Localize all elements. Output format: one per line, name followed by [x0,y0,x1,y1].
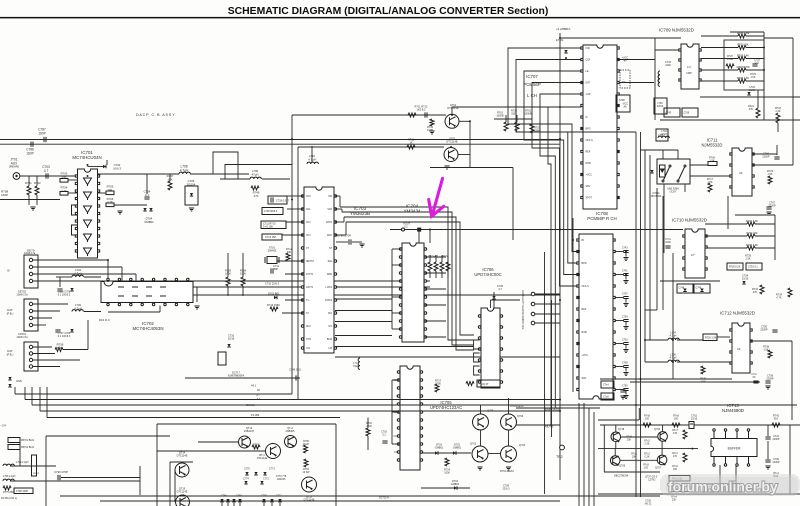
ground IC702 right [194,306,199,309]
wire TP3 right [535,313,560,315]
wire bus bl 2v [24,387,26,400]
wire ladder2 row 1 r [755,235,775,237]
wire IC705 left bus2 [391,380,393,444]
svg-text:TPS LRC: TPS LRC [522,300,525,310]
connector DE702 pin 3 [29,316,32,319]
diode bottom row b0 [262,499,265,502]
junction dot 22 [625,274,627,276]
svg-text:+VCC: +VCC [586,174,593,177]
svg-text:R7062.2K: R7062.2K [107,197,114,204]
transistor QT16 DTA114E [266,444,281,459]
junction dot 4 [559,229,561,231]
wire IC701 out 1 [98,192,106,194]
wire IC708 bottom exit [560,404,579,406]
relay switch 1 [662,165,671,182]
svg-text:TPD GND: TPD GND [522,318,525,329]
wire DE702 pin4 [33,324,46,326]
diode bottom row a3 [238,499,241,502]
inductor L708 4.7uH [179,172,190,174]
svg-text:TP2: TP2 [556,455,563,459]
wire ladder row RT01 2.3M left [701,35,738,37]
wire L701 right [84,276,101,278]
wire Q704 row [488,453,500,455]
wire ladder2 row 2 l [705,247,747,249]
svg-text:C774: C774 [243,478,249,481]
svg-text:R7042.2K: R7042.2K [61,186,68,193]
wire IC707 staircase 5 [540,94,581,408]
svg-text:C704∙: C704∙ [622,317,628,319]
svg-text:GND: GND [16,379,22,383]
svg-text:C742∙: C742∙ [622,248,628,250]
resistor R701 [27,186,31,195]
wire IC704 left pin 5 [392,312,401,314]
component C753 box [746,263,762,270]
wire IC708 right pin C702 [615,343,624,345]
wire IC703 out v4 [345,222,347,235]
wire ladder row RT01 2.3M right [746,35,764,37]
resistor R713 100B [430,119,434,126]
capacitor R712b [425,112,427,117]
wire IC703 left p1 [287,195,303,197]
wire Q701/Q702 join [469,121,471,167]
svg-text:OFF-S: OFF-S [582,285,590,288]
wire bottom long2 [100,500,560,502]
wire Q706-Q704 [508,430,510,446]
wire IC703 left xtal1 [277,260,303,262]
IC702 top pin 1 [107,278,109,281]
IC712 left pin 1 [730,329,732,331]
IC702 inner marks [118,287,166,296]
wire IC704 left bus [391,249,393,329]
svg-text:Q704: Q704 [519,444,526,447]
IC709 right pin 1 [699,49,701,51]
svg-text:C770∙7751000/35: C770∙7751000/35 [276,475,287,481]
wire L708 left [98,173,179,175]
resistor R724b [768,176,772,184]
wire ladder2 row 2 r [755,247,775,249]
inverter gate 2 inside IC701 [84,192,92,200]
resistor R702 3.3K [747,222,755,226]
svg-text:RC2: RC2 [306,326,311,328]
ferrite bead FB701 [8,438,20,443]
connector DE702 pin 2 [29,309,32,312]
svg-text:(REAR): (REAR) [9,165,19,169]
resistor R764 100K [241,277,245,286]
wire right area link2 [660,119,800,121]
IC713 bottom pin 2 [724,457,726,467]
wire QT14-QT15 link [174,470,176,502]
wire right area link1 [700,96,800,98]
inverter gate 1 inside IC701 [84,178,92,186]
junction dot 13 [672,339,674,341]
wire bus bl 5v [46,387,48,418]
diode bottom row a1 [226,499,229,502]
wire Q706 up [508,398,510,414]
connector DE701 box [24,255,38,288]
wire R764 down [242,286,244,296]
capacitor C714 56P [271,268,273,273]
wire L706 right [677,361,732,363]
wire C769 link [767,441,769,459]
svg-text:DC701(AUX L): DC701(AUX L) [1,497,17,500]
inductor L703 47uH [658,136,669,138]
svg-text:Y02: Y02 [306,348,311,350]
IC702 top pin 8 [187,278,189,281]
svg-text:Q704: Q704 [654,428,661,431]
diode input protect b [8,384,11,387]
wire bus bottom x584 [583,403,585,506]
wire bus bl 3v [31,387,33,405]
dot near IC707 top [565,57,567,59]
capacitor near IC710 [665,246,670,248]
svg-text:Q703: Q703 [470,443,477,446]
wire mute box left [156,424,158,506]
resistor R742 51K [772,423,780,427]
IC708 filled pin left y297.5 [577,296,580,299]
svg-text:R730 8.2K: R730 8.2K [729,266,741,269]
wire nested to IC706 a [448,253,474,340]
resistor cluster RC702 near IC706 [440,262,444,271]
wire R758 right [63,349,88,351]
capacitor C790 270P [349,239,351,244]
svg-text:C787160P: C787160P [38,128,46,136]
svg-text:C753 0.1: C753 0.1 [748,266,758,269]
crystal X701 plates [265,257,279,263]
wire IC708 right pin C708 [615,366,624,368]
resistor cluster RC700 near IC706 [428,262,432,271]
wire big box bottom top [46,435,170,437]
resistor R711 1K [408,113,416,117]
ground C708 [623,373,628,376]
wire mute box top [157,423,336,425]
junction dot 20 [450,146,452,148]
svg-text:C790 270P: C790 270P [337,234,351,238]
wire IC708 right pin C707 [615,297,624,299]
IC705 UPD74HC123AC body [397,366,422,470]
IC707 filled pin right y105.5 [617,104,619,106]
connector CD701 pin 3 [29,358,32,361]
svg-text:DAT(P.B.): DAT(P.B.) [7,308,14,315]
wire L702 right [84,311,101,313]
vertical bead FB703 [32,455,37,476]
svg-text:Q706: Q706 [517,415,524,418]
wire top bus 2 [0,143,560,145]
IC709 right pin 2 [699,59,701,61]
ground C741 [623,281,628,284]
wire IC703 left d [285,299,303,301]
wire relay pin b [677,150,679,159]
wire Q705 up [480,405,482,414]
ground C705 [623,396,628,399]
IC703 YM3623B body [301,187,336,353]
svg-text:C75410/16: C75410/16 [742,275,749,281]
wire IC712 out v [791,341,793,420]
IC708 filled pin left y343.5 [577,342,580,345]
wire DE701 pin4 [33,280,150,282]
svg-text:XPGT: XPGT [586,197,593,200]
IC702 body [101,282,193,303]
wire IC703 out L RO2 [335,298,392,300]
IC711 right pin 4 [752,186,754,188]
crystal X701 box [267,257,277,264]
junction dot 9 [87,175,89,177]
diode bottom row b2 [278,499,281,502]
IC706 gate loop 2 [474,353,480,362]
wire CD701 pin4 [33,366,60,368]
transistor QT11 DTC114E [302,477,317,492]
svg-text:32 8.1.1: 32 8.1.1 [246,404,255,407]
wire ladder row RT09 1.5K left [701,80,738,82]
junction dot 15 [644,339,646,341]
wire cluster bot 0 [429,271,431,278]
svg-text:LE: LE [586,70,589,73]
inductor L745 right of IC707 [658,71,660,82]
svg-text:R7588.2K: R7588.2K [57,343,64,350]
svg-text:1/T: 1/T [691,253,695,257]
svg-text:CLR: CLR [586,59,591,62]
wire ladder row RT03 33K left [701,47,738,49]
wire IC706 top right [491,299,521,301]
wire R762 up [505,115,507,122]
capacitor C746 0.01 [296,375,298,380]
diode C774a [244,481,247,484]
resistor R716 2200 [366,428,370,436]
wire Q701 top [452,106,560,108]
wire IC704 left pin 3 [392,280,401,282]
junction XOUT [429,229,431,231]
wire IC702 out bottom [108,311,160,313]
svg-text:L/R: L/R [328,348,332,350]
resistor R738 [768,350,772,358]
IC704 YM3434 body [399,243,426,342]
inductor L701 4.7uH [72,275,83,277]
IC707 filled pin left y82.5 [581,81,583,83]
capacitor C703c [382,441,387,443]
capacitor C787 160P [44,137,46,142]
svg-text:10A8-17a: 10A8-17a [24,251,36,255]
connector DE702 pin 4 [29,323,32,326]
wire IC705 to diodes [421,452,471,454]
svg-text:0.41 15K: 0.41 15K [263,226,273,229]
wire R721 up [757,90,759,108]
wire bottom diode a3 [239,503,241,506]
transistor Q707 [657,455,667,466]
ground C707 [623,304,628,307]
inductor L710 [307,162,318,164]
resistor R740 1.5K [701,366,705,374]
wire IC702 bottom v [159,306,161,313]
wire D704c line [421,487,470,489]
svg-text:C772: C772 [263,478,269,481]
wire mid bus 4 [225,165,292,180]
wire QT14 box top [170,461,193,463]
wire bus bl 5 [47,417,340,419]
wire C702 down [625,345,627,349]
connector DE701 pin 3 [29,272,32,275]
svg-text:TPR DAT: TPR DAT [522,289,525,300]
resistor RT05 3.4K [738,57,746,61]
svg-text:IC709 NJM5532D: IC709 NJM5532D [659,28,694,33]
wire DE701 pin1 [33,259,108,261]
wire L709 left [220,178,250,180]
wire C742 down [625,253,627,257]
wire nested to IC706 b [452,290,474,345]
resistor R703 24K [60,179,68,183]
capacitor C701 [752,64,757,66]
inductor L706 4.7uH [668,360,679,362]
svg-text:HQ 2T: HQ 2T [481,382,489,386]
wire IC704 right pin 2 [425,272,446,274]
transistor Q7x4 [658,432,668,443]
svg-text:R775 28K: R775 28K [3,491,14,494]
svg-text:L7××15µH: L7××15µH [353,362,359,368]
component box C711 R710 [261,221,286,229]
resistor R7x8 100 [643,423,651,427]
wire cluster bot 2 [441,271,443,278]
diode D701 B01 [274,296,277,299]
wire mute [516,424,560,426]
svg-text:L799 2.2µH: L799 2.2µH [16,461,29,464]
wire quad mid row [598,448,698,450]
wire relay pin a [662,150,664,159]
IC712 right pin 1 [750,329,752,331]
capacitor C705 at IC708 [623,389,628,391]
wire L708 right [190,173,249,175]
svg-text:IC712 NJM5532D: IC712 NJM5532D [720,311,755,316]
resistor R717b 1.5K [708,183,712,192]
wire R716 v [367,418,369,429]
wire IC711 out right [752,164,793,166]
wire nested to IC706 c [456,320,474,350]
svg-text:R72x: R72x [442,255,448,258]
svg-text:AII: AII [739,171,743,175]
wire input lower [0,199,60,201]
svg-text:C7x82200P: C7x82200P [773,435,780,441]
wire br x720 [719,465,721,484]
connector CD701 pin 4 [29,365,32,368]
wire IC708 right pin C742 [615,251,624,253]
resistor R704 33K [747,234,755,238]
wire br top y382 [630,381,760,383]
wire right tall x636 [635,132,637,497]
watermark band [660,474,800,496]
capacitor C7xx 63 [753,381,758,383]
ground near C7b2 [620,396,625,399]
svg-text:C708∙: C708∙ [622,363,628,365]
diode D703 GMB01 [435,451,438,454]
svg-text:C7662200P: C7662200P [762,153,770,159]
svg-text:L7014.7µH: L7014.7µH [74,268,82,275]
wire IC703 out R BO2 [335,310,392,312]
svg-text:REF: REF [582,308,587,311]
diode C773a [263,472,266,475]
capacitor C756 2200P [772,330,777,332]
IC712 right pin 2 [750,340,752,342]
IC702 top pin 7 [175,278,177,281]
wire right tall x640 [640,132,642,497]
svg-text:FB703: FB703 [33,473,40,475]
wire IC703 data out 1 [335,195,340,197]
svg-text:I0: I0 [7,269,10,273]
wire right edge v [792,38,794,120]
inductor L704 4.7uH [668,338,679,340]
capacitor C786 160P [31,142,33,147]
wire mid bus 3 [213,152,238,179]
IC711 right pin 1 [752,153,754,155]
wire IC704 left pin 4 [392,296,401,298]
svg-text:T1-: T1- [306,300,310,302]
wire top bus 1 [0,139,560,141]
wire IC707 staircase 2 [516,60,581,264]
wire cluster top 2 [441,255,443,262]
svg-text:Q706: Q706 [619,465,626,468]
wire C766 v [776,145,778,155]
IC702 bottom pin 3 [130,303,132,306]
wire right bus xd [662,196,664,310]
test point TP4 [531,321,535,325]
svg-text:forum.onliner.by: forum.onliner.by [668,479,778,495]
wire DE701 pin2 [33,266,122,268]
wire bottom diode a1 [227,503,229,506]
wire ladder row RT07 R708 left [701,69,738,71]
wire CD701 pin2 [33,353,55,355]
svg-text:MO: MO [328,313,332,315]
svg-text:AII: AII [737,347,741,351]
wire quad bottom [604,471,660,473]
ground C742 [623,258,628,261]
wire main vertical x560 [559,33,561,480]
wire C705 down [625,391,627,395]
inductor L799 2.2uH [3,464,14,466]
resistor R736 box [703,334,717,341]
wire quad box x639 [638,408,640,420]
wire bl v140 [139,466,141,495]
IC711 left pin 4 [730,186,732,188]
wire C726 [493,292,495,308]
wire bl row1 [10,465,56,467]
wire right bus xa [644,150,646,362]
wire IC707 staircase 3 [524,71,581,275]
svg-text:XO1: XO1 [306,235,311,237]
wire R702 lead [36,176,38,186]
IC702 top pin 5 [152,278,154,281]
wire C704 down [625,322,627,326]
svg-text:NROST: NROST [306,261,315,263]
wire IC701 top to D702 [88,166,104,168]
wire R747 drop [169,174,171,181]
svg-text:C7562200P: C7562200P [760,326,768,332]
wire bottom diode a2 [233,503,235,506]
IC713 top pin 4 [747,429,749,439]
capacitor C702 at IC708 [623,343,628,345]
capacitor C708 at IC708 [623,366,628,368]
wire IC711 to C766 [752,153,777,155]
polar cap C716 [227,344,230,347]
svg-text:C769: C769 [684,113,690,115]
wire R704 to IC701 [68,192,77,194]
svg-text:C718 0.017: C718 0.017 [276,200,290,203]
resistor R7x6 100 [672,423,680,427]
IC710 left pin 2 [683,246,685,248]
wire nested loop 4 [346,222,474,335]
svg-text:C7582200P: C7582200P [766,375,774,381]
wire ladder row RT09 1.5K right [746,80,764,82]
IC710 right pin 2 [705,246,707,248]
IC706 gate loop 1 [474,340,480,349]
svg-text:R7162200: R7162200 [366,422,372,428]
resistor R732 [760,285,764,294]
capacitor C741 at IC708 [623,274,628,276]
